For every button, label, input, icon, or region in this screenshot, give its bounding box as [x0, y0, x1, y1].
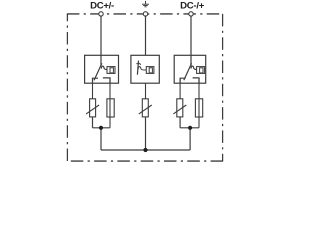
wire MOV1 bottom	[92, 117, 94, 128]
wire node A down	[100, 128, 102, 150]
U3 right contact bracket	[193, 78, 199, 83]
U3 switch blade	[184, 63, 192, 80]
wire T2 to U2	[145, 16, 147, 55]
U3 left contact bracket	[180, 78, 186, 83]
wire left pair join	[93, 127, 111, 129]
lead U3 to MOV3	[179, 78, 181, 99]
U2 breakaway curl	[138, 67, 146, 70]
svg-text:DC-/+: DC-/+	[180, 0, 205, 11]
node A junction dot	[99, 126, 103, 130]
disconnector block U1	[85, 55, 119, 83]
U2 disconnect device inner	[149, 68, 152, 73]
node B junction dot	[188, 126, 192, 130]
U1 right contact bracket	[103, 78, 110, 83]
terminal DC+/-	[99, 12, 103, 16]
wire MOV2 to rail	[145, 117, 147, 150]
U1 disconnect device box	[107, 67, 115, 74]
wire bottom rail	[101, 149, 190, 151]
varistor MOV1	[86, 99, 99, 117]
terminal ground	[143, 12, 147, 16]
fuse F2 (with through lead)	[195, 78, 202, 128]
wire MOV3 bottom	[179, 117, 181, 128]
terminal DC-/+	[189, 12, 193, 16]
svg-text:DC+/-: DC+/-	[90, 0, 114, 11]
lead U2 to MOV2	[145, 83, 147, 99]
U1 left contact bracket	[93, 78, 99, 83]
U2 closed contact stroke	[137, 61, 138, 75]
U3 disconnect device box	[197, 67, 205, 74]
disconnector block U2	[131, 55, 159, 83]
varistor MOV3	[173, 99, 186, 117]
U1 switch blade	[94, 63, 102, 80]
wire T1 to switch pivot	[100, 16, 102, 66]
disconnector block U3	[174, 55, 206, 83]
varistor MOV2	[139, 99, 152, 117]
U3 breakaway curl	[191, 66, 197, 69]
ground symbol	[142, 1, 149, 7]
lead U1 to MOV1	[92, 78, 94, 99]
enclosure border (dash-dot)	[67, 14, 223, 161]
U2 disconnect device box	[146, 67, 154, 74]
wire T3 to switch pivot	[190, 16, 192, 66]
wire right pair join	[180, 127, 199, 129]
U3 disconnect device inner	[200, 68, 203, 73]
node center junction dot	[143, 148, 147, 152]
wire node B down	[189, 128, 191, 150]
U1 breakaway curl	[101, 66, 107, 69]
U1 disconnect device inner	[110, 68, 113, 73]
U2 contact crossbar	[136, 64, 140, 65]
fuse F1 (with through lead)	[107, 78, 114, 128]
